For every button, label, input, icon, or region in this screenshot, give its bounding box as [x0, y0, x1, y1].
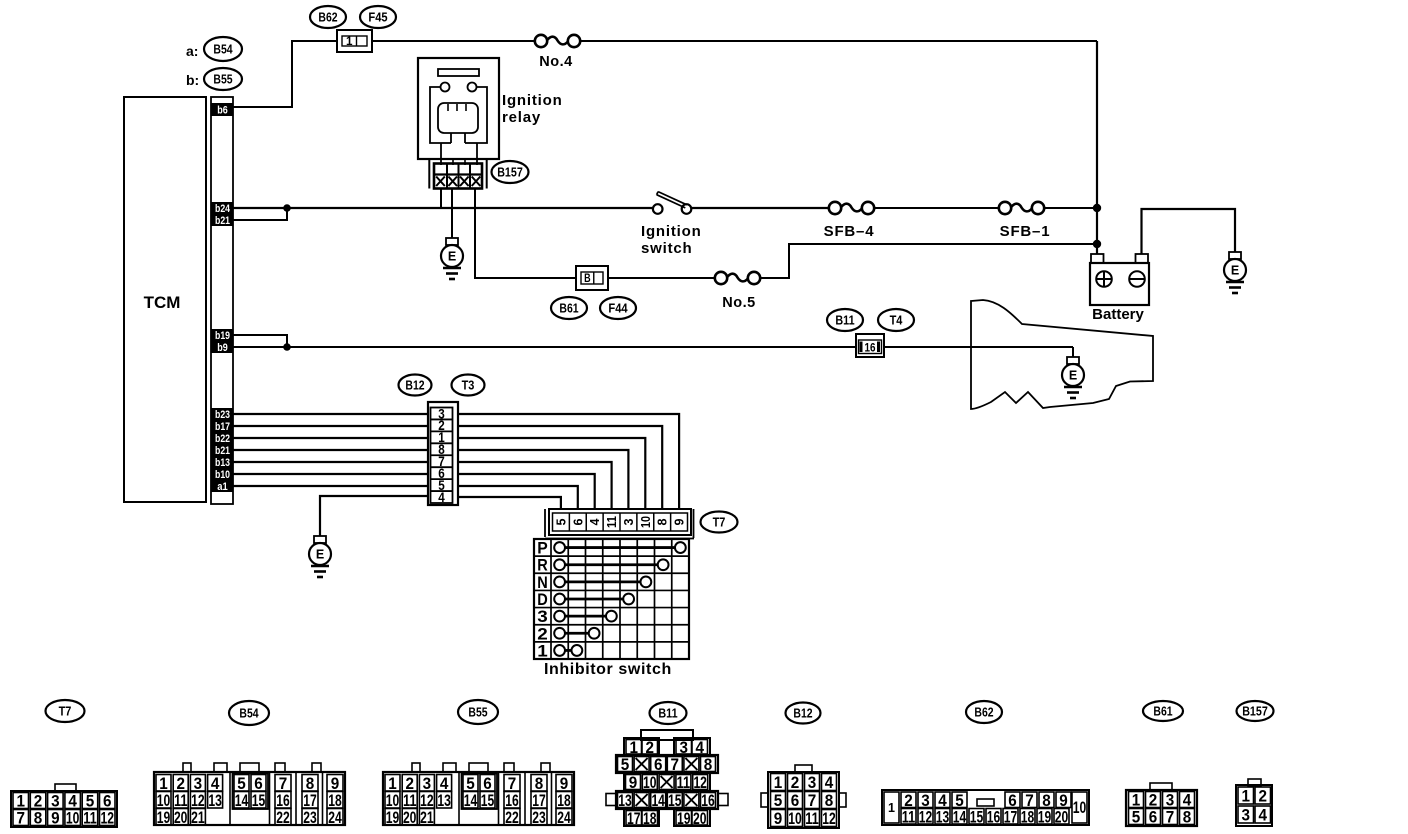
svg-text:23: 23 [303, 808, 317, 827]
svg-text:4: 4 [825, 773, 834, 792]
svg-text:10: 10 [788, 809, 802, 828]
svg-text:15: 15 [481, 791, 495, 810]
svg-text:Battery: Battery [1092, 306, 1144, 323]
svg-text:1: 1 [346, 34, 353, 48]
svg-text:3: 3 [537, 608, 548, 626]
svg-text:4: 4 [587, 518, 602, 526]
svg-text:2: 2 [791, 773, 800, 792]
svg-text:15: 15 [970, 807, 984, 826]
svg-text:10: 10 [638, 516, 653, 528]
svg-text:10: 10 [643, 773, 657, 792]
svg-text:2: 2 [1259, 787, 1268, 806]
svg-text:12: 12 [822, 809, 836, 828]
svg-text:8: 8 [34, 809, 43, 828]
svg-text:11: 11 [83, 809, 97, 828]
svg-text:21: 21 [420, 808, 434, 827]
svg-text:19: 19 [1038, 807, 1052, 826]
svg-text:13: 13 [618, 791, 632, 810]
svg-text:14: 14 [235, 791, 249, 810]
svg-text:17: 17 [627, 809, 641, 828]
svg-text:19: 19 [157, 808, 171, 827]
svg-text:b23: b23 [215, 409, 230, 421]
svg-text:B11: B11 [835, 313, 854, 328]
svg-text:E: E [448, 250, 456, 264]
svg-text:20: 20 [1055, 807, 1069, 826]
svg-text:E: E [316, 548, 324, 562]
svg-text:P: P [537, 540, 548, 558]
svg-text:b9: b9 [217, 342, 228, 354]
svg-text:3: 3 [1242, 806, 1251, 825]
svg-text:SFB–4: SFB–4 [824, 223, 875, 240]
svg-text:6: 6 [791, 791, 800, 810]
svg-text:9: 9 [672, 519, 687, 526]
svg-text:E: E [1231, 264, 1239, 278]
svg-text:F44: F44 [608, 301, 628, 316]
svg-text:16: 16 [865, 341, 876, 355]
svg-text:N: N [537, 574, 548, 592]
svg-text:15: 15 [668, 791, 682, 810]
svg-text:5: 5 [553, 519, 568, 526]
svg-text:14: 14 [953, 807, 967, 826]
svg-text:relay: relay [502, 109, 541, 126]
svg-text:B12: B12 [405, 378, 424, 393]
svg-text:12: 12 [101, 809, 115, 828]
svg-text:3: 3 [808, 773, 817, 792]
svg-text:7: 7 [808, 791, 817, 810]
svg-text:11: 11 [604, 516, 619, 528]
svg-text:13: 13 [208, 791, 222, 810]
svg-text:T7: T7 [713, 515, 726, 530]
svg-text:B61: B61 [559, 301, 578, 316]
svg-text:18: 18 [643, 809, 657, 828]
svg-text:T3: T3 [462, 378, 475, 393]
svg-text:R: R [537, 557, 548, 575]
svg-text:9: 9 [774, 809, 783, 828]
svg-text:7: 7 [17, 809, 26, 828]
svg-text:8: 8 [704, 755, 713, 774]
svg-text:20: 20 [174, 808, 188, 827]
svg-text:T7: T7 [59, 704, 72, 719]
svg-text:9: 9 [629, 773, 638, 792]
svg-text:Ignition: Ignition [502, 92, 563, 109]
svg-text:14: 14 [651, 791, 665, 810]
svg-text:22: 22 [505, 808, 519, 827]
svg-text:B54: B54 [239, 706, 259, 721]
svg-text:Ignition: Ignition [641, 223, 702, 240]
svg-text:5: 5 [1132, 808, 1141, 827]
svg-text:13: 13 [936, 807, 950, 826]
svg-text:b21: b21 [215, 215, 230, 227]
svg-text:B55: B55 [468, 705, 487, 720]
svg-text:8: 8 [655, 519, 670, 526]
svg-text:20: 20 [693, 809, 707, 828]
svg-text:4: 4 [438, 489, 445, 505]
svg-text:b21: b21 [215, 445, 230, 457]
svg-text:5: 5 [621, 755, 630, 774]
svg-text:10: 10 [1073, 798, 1087, 817]
svg-text:19: 19 [386, 808, 400, 827]
svg-text:23: 23 [532, 808, 546, 827]
svg-text:21: 21 [191, 808, 205, 827]
svg-text:B62: B62 [974, 705, 993, 720]
svg-text:20: 20 [403, 808, 417, 827]
svg-text:8: 8 [1183, 808, 1192, 827]
svg-text:6: 6 [1149, 808, 1158, 827]
svg-text:18: 18 [1021, 807, 1035, 826]
svg-text:B54: B54 [213, 42, 233, 57]
svg-text:b24: b24 [215, 203, 231, 215]
svg-text:b22: b22 [215, 433, 230, 445]
svg-text:1: 1 [537, 642, 548, 660]
svg-text:D: D [537, 591, 548, 609]
svg-text:5: 5 [774, 791, 783, 810]
svg-text:11: 11 [805, 809, 819, 828]
svg-text:1: 1 [774, 773, 783, 792]
svg-text:16: 16 [987, 807, 1001, 826]
svg-text:10: 10 [66, 809, 80, 828]
svg-text:B: B [584, 271, 591, 285]
svg-text:No.4: No.4 [539, 54, 572, 70]
svg-text:b13: b13 [215, 457, 230, 469]
svg-text:6: 6 [570, 519, 585, 526]
svg-text:22: 22 [276, 808, 290, 827]
svg-text:7: 7 [1166, 808, 1175, 827]
svg-text:1: 1 [888, 801, 895, 815]
svg-text:17: 17 [1004, 807, 1018, 826]
svg-text:15: 15 [252, 791, 266, 810]
svg-text:b10: b10 [215, 469, 230, 481]
svg-text:B62: B62 [318, 10, 337, 25]
svg-text:B157: B157 [1242, 704, 1268, 719]
svg-text:a1: a1 [217, 481, 228, 493]
svg-text:2: 2 [537, 625, 548, 643]
svg-text:F45: F45 [368, 10, 387, 25]
svg-text:16: 16 [701, 791, 715, 810]
svg-text:No.5: No.5 [722, 295, 755, 311]
svg-text:13: 13 [437, 791, 451, 810]
svg-text:19: 19 [677, 809, 691, 828]
svg-text:SFB–1: SFB–1 [1000, 223, 1051, 240]
svg-text:Inhibitor switch: Inhibitor switch [544, 661, 672, 678]
svg-text:b:: b: [186, 72, 199, 88]
svg-text:12: 12 [919, 807, 933, 826]
svg-text:T4: T4 [890, 313, 903, 328]
svg-text:B157: B157 [497, 165, 523, 180]
svg-text:a:: a: [186, 43, 198, 59]
svg-text:14: 14 [464, 791, 478, 810]
svg-text:TCM: TCM [144, 293, 181, 312]
svg-text:3: 3 [621, 519, 636, 526]
svg-text:24: 24 [328, 808, 342, 827]
svg-text:12: 12 [693, 773, 707, 792]
svg-text:switch: switch [641, 240, 692, 257]
svg-text:b19: b19 [215, 330, 230, 342]
svg-text:b17: b17 [215, 421, 230, 433]
svg-text:11: 11 [677, 773, 691, 792]
svg-text:B61: B61 [1153, 704, 1172, 719]
svg-text:7: 7 [671, 755, 680, 774]
svg-text:24: 24 [557, 808, 571, 827]
svg-text:11: 11 [902, 807, 916, 826]
svg-text:b6: b6 [217, 105, 228, 117]
svg-text:B11: B11 [658, 706, 677, 721]
svg-text:8: 8 [825, 791, 834, 810]
svg-text:4: 4 [1259, 806, 1268, 825]
svg-text:6: 6 [654, 755, 663, 774]
svg-text:1: 1 [1242, 787, 1251, 806]
svg-text:B12: B12 [793, 706, 812, 721]
svg-text:E: E [1069, 369, 1077, 383]
svg-text:9: 9 [51, 809, 60, 828]
svg-text:B55: B55 [213, 72, 232, 87]
